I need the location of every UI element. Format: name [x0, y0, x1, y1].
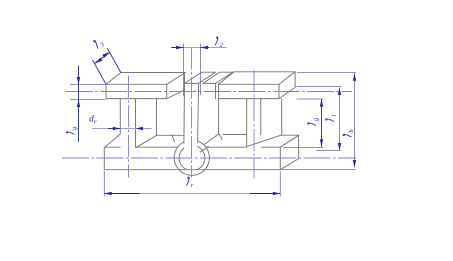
centerline left pin [128, 76, 130, 178]
hinge bulb back arc [219, 134, 222, 140]
label l2 [215, 37, 223, 49]
label right inner lg [307, 118, 319, 126]
svg-text:3: 3 [98, 41, 106, 49]
centerline horizontal lower [62, 157, 356, 159]
dimension l2 arrows [176, 46, 208, 49]
dimension dc arrows [113, 127, 143, 130]
svg-text:dc: dc [89, 115, 97, 126]
left plate right side face [167, 90, 185, 99]
middle box A [184, 72, 215, 83]
dimension right inner arrows [320, 99, 323, 147]
bottom bar front face [104, 147, 280, 170]
centerline bulb [191, 48, 193, 178]
label l3 [92, 37, 105, 51]
hinge bulb inner circle [179, 147, 205, 170]
hinge bulb back-left arc [172, 135, 175, 142]
left pin column [105, 99, 136, 148]
dimension bottom lr [104, 171, 280, 197]
right plate top face [219, 72, 296, 85]
dimension right middle arrows [338, 88, 341, 151]
svg-text:r: r [191, 182, 194, 189]
dimension right outer arrows [353, 73, 356, 167]
svg-text:g: g [71, 127, 78, 130]
center column left edge (plate back corner to hinge) [183, 73, 186, 144]
dimension bottom lr arrows [104, 192, 280, 195]
hinge bulb outer circle [174, 141, 209, 175]
label right outer lb [343, 129, 355, 137]
bottom bar right end [280, 135, 298, 169]
left plate front face [106, 84, 167, 98]
dimension right middle [297, 87, 342, 151]
svg-text:1: 1 [331, 114, 338, 117]
right window left back edge [219, 99, 247, 135]
dimension right outer [282, 73, 356, 170]
dimension right inner [283, 99, 323, 148]
left window back edges [137, 99, 184, 147]
middle box B [203, 72, 233, 99]
svg-text:b: b [348, 129, 355, 132]
left plate top face [106, 73, 185, 85]
right pin column [247, 99, 261, 147]
dimension left vertical [70, 66, 105, 143]
label left vertical lg [66, 127, 78, 135]
dimension dc [92, 128, 152, 130]
label dc [89, 115, 97, 126]
right window right back edges [247, 99, 299, 147]
dimension l2 [171, 44, 226, 97]
bulb side receding edge [200, 134, 218, 152]
center column right edge [198, 83, 199, 142]
dimension left vertical arrows [77, 77, 80, 107]
label lr [187, 177, 194, 189]
svg-text:g: g [313, 118, 320, 121]
right plate front face [219, 84, 279, 98]
centerline right pin [253, 70, 255, 179]
label right middle l1 [325, 114, 337, 122]
dimension l3 arrows [95, 52, 111, 64]
dimension l3 oblique [93, 48, 121, 84]
centerline horizontal upper [66, 91, 352, 93]
right plate side face [279, 72, 295, 99]
